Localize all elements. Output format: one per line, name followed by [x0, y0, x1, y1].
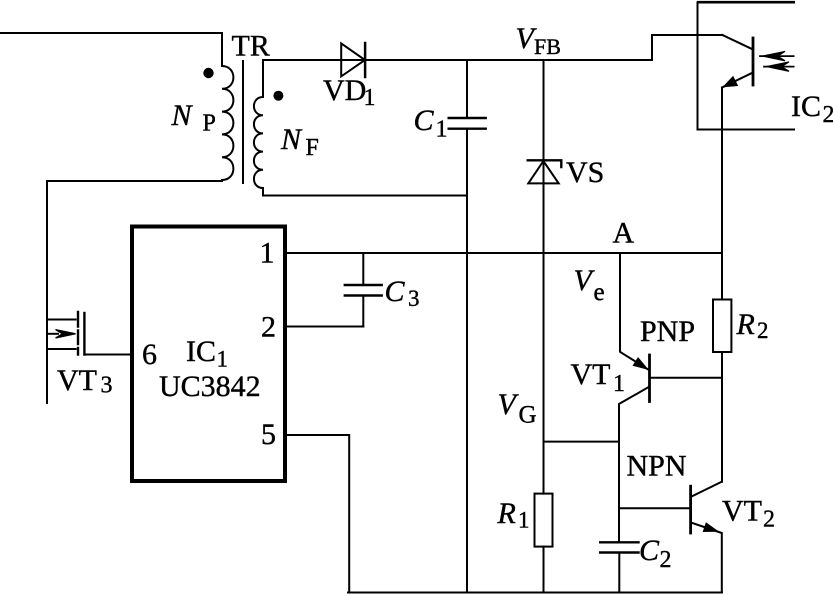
label VG — [498, 388, 537, 429]
svg-text:N: N — [280, 123, 303, 156]
label R2 — [736, 308, 769, 343]
wire: NF bottom lead to C1 column — [263, 188, 467, 196]
svg-text:1: 1 — [260, 237, 275, 270]
label VT3 — [57, 364, 113, 399]
label Ve — [574, 264, 605, 306]
polarity dot NF — [273, 91, 283, 101]
svg-text:e: e — [594, 279, 605, 306]
label VT2 — [722, 495, 775, 533]
svg-text:1: 1 — [364, 85, 376, 111]
label IC1 — [186, 335, 228, 372]
light arrow 2 — [764, 62, 794, 71]
resistor R1 — [535, 494, 553, 547]
wire: VFB rail y=60 from NF through VD1 — [263, 59, 652, 61]
diode VD1 — [341, 43, 365, 77]
svg-text:PNP: PNP — [640, 315, 695, 348]
label R1 — [497, 497, 530, 533]
wire: NP bottom to MOSFET drain column — [47, 180, 222, 403]
wire: NF top lead — [262, 60, 264, 97]
wire: pin 5 to bottom rail — [286, 435, 349, 593]
label VFB — [516, 22, 561, 59]
svg-text:C: C — [639, 534, 660, 567]
wire: pin 2 stub — [286, 326, 363, 328]
svg-text:FB: FB — [534, 34, 561, 59]
label NP — [171, 99, 216, 137]
svg-text:VT: VT — [722, 495, 762, 528]
transformer TR primary winding NP — [222, 66, 233, 180]
svg-text:6: 6 — [142, 338, 157, 371]
svg-text:3: 3 — [101, 373, 113, 399]
wire: R2 bottom to VT1 base node and VT2 collector — [721, 352, 723, 482]
wire: top-left input to NP top — [0, 33, 222, 66]
transistor VT2 NPN — [619, 482, 722, 593]
svg-text:R: R — [497, 497, 516, 530]
svg-text:3: 3 — [408, 286, 420, 311]
svg-text:C: C — [414, 104, 435, 137]
svg-text:G: G — [519, 402, 537, 429]
label C1 — [414, 104, 448, 143]
wire: IC2 emitter down to R2 top (node A junction) — [721, 88, 723, 300]
svg-text:F: F — [306, 135, 319, 161]
label NF — [280, 123, 319, 161]
svg-text:VS: VS — [566, 156, 604, 189]
svg-text:TR: TR — [232, 30, 270, 63]
capacitor C2 — [600, 542, 638, 592]
wire: VG node to VT1 collector — [544, 441, 620, 443]
opto-transistor IC2 — [722, 35, 753, 88]
svg-text:N: N — [171, 99, 194, 132]
zener diode VS — [528, 160, 562, 183]
svg-text:2: 2 — [261, 311, 276, 344]
svg-text:2: 2 — [757, 318, 769, 343]
svg-text:IC: IC — [186, 335, 216, 368]
wire: C1 bottom down to bottom rail — [466, 130, 468, 593]
svg-text:A: A — [613, 217, 635, 250]
svg-text:5: 5 — [261, 418, 276, 451]
wire: VFB node down through VS to VG node — [543, 60, 545, 494]
svg-text:1: 1 — [613, 371, 625, 397]
transformer TR core — [242, 61, 244, 183]
wire: top supply rail — [697, 1, 795, 4]
wire: R1 bottom to rail — [543, 547, 545, 593]
node A wire: IC1 pin1 to VT1 emitter and R2 column — [286, 252, 722, 254]
transformer TR feedback winding NF — [254, 97, 263, 188]
svg-text:R: R — [736, 308, 755, 341]
svg-text:UC3842: UC3842 — [159, 370, 261, 403]
svg-text:1: 1 — [436, 117, 448, 143]
svg-text:1: 1 — [518, 508, 530, 533]
capacitor C3 — [345, 253, 382, 327]
wire: pin 6 to MOSFET gate — [84, 354, 131, 356]
transistor VT1 PNP — [619, 253, 722, 542]
light arrow 1 — [760, 51, 794, 60]
svg-text:NPN: NPN — [627, 450, 687, 483]
svg-text:C: C — [385, 275, 406, 308]
svg-text:2: 2 — [660, 547, 672, 573]
label VD1 — [323, 74, 376, 111]
label IC2 — [791, 90, 833, 128]
svg-text:VT: VT — [571, 358, 611, 391]
svg-text:VT: VT — [57, 364, 97, 397]
wire: bottom rail — [348, 592, 722, 594]
label C3 — [385, 275, 420, 311]
svg-text:VD: VD — [323, 74, 366, 107]
op-amp/controller box IC1 — [132, 227, 285, 482]
resistor R2 — [713, 300, 731, 353]
transistor Q VT3 MOSFET — [47, 312, 84, 355]
label C2 — [639, 534, 672, 573]
label VT1 — [571, 358, 626, 397]
wire: optocoupler left branch and bottom stub — [698, 3, 795, 130]
wire: step up from VFB rail to opto collector — [652, 35, 723, 60]
capacitor C1 — [449, 60, 486, 129]
svg-text:2: 2 — [823, 102, 833, 128]
svg-text:2: 2 — [763, 507, 775, 533]
svg-text:1: 1 — [217, 347, 229, 372]
svg-text:IC: IC — [791, 90, 821, 123]
svg-text:P: P — [203, 111, 216, 137]
polarity dot NP — [203, 68, 213, 78]
